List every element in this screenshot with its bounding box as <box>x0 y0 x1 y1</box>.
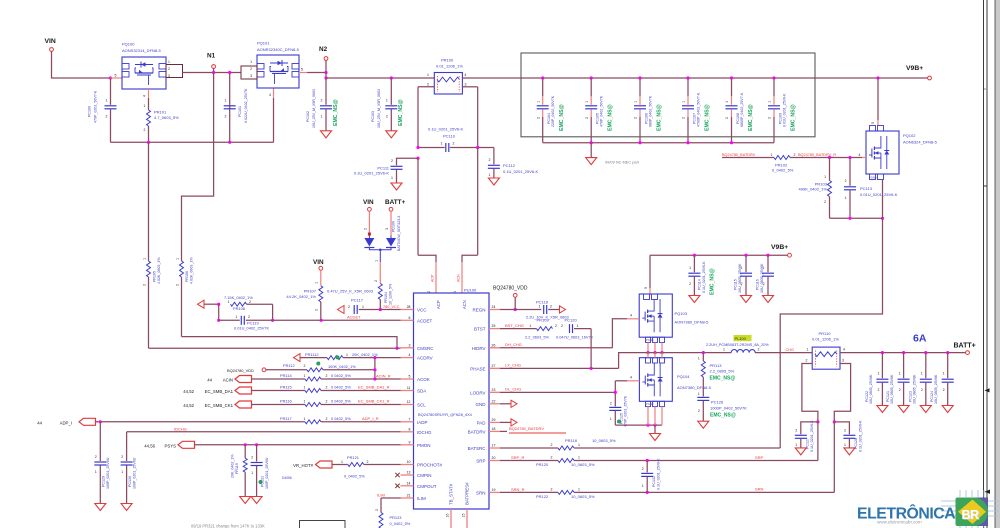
ground below PC123 <box>920 406 931 413</box>
svg-text:0.1U_0201_25V6-K: 0.1U_0201_25V6-K <box>657 458 661 490</box>
svg-text:2: 2 <box>634 117 638 119</box>
svg-text:CMPOUT: CMPOUT <box>417 484 437 489</box>
svg-text:0_0402_5%: 0_0402_5% <box>344 474 365 479</box>
svg-text:PC101: PC101 <box>238 106 242 117</box>
wire DH_CHG to PQ103 gate <box>500 347 612 349</box>
svg-text:1: 1 <box>725 101 729 103</box>
wire junction PR112/ACDRV/ACIN <box>374 358 376 379</box>
wire phase bus right of coil <box>755 352 812 354</box>
svg-text:28: 28 <box>407 305 411 309</box>
svg-text:2: 2 <box>768 117 772 119</box>
resistor PR121 <box>332 464 348 466</box>
svg-text:BATDRV: BATDRV <box>468 429 486 434</box>
svg-text:CHG: CHG <box>786 348 794 352</box>
svg-text:2: 2 <box>121 455 123 459</box>
svg-text:PR123: PR123 <box>390 515 402 520</box>
capacitor PC112 <box>493 148 495 165</box>
svg-text:4: 4 <box>269 93 271 97</box>
svg-text:2: 2 <box>489 158 491 162</box>
svg-text:PROCHOT#: PROCHOT# <box>417 463 443 468</box>
svg-text:EMC_NS@: EMC_NS@ <box>333 99 339 126</box>
svg-text:1: 1 <box>943 372 945 376</box>
svg-text:SRP_R: SRP_R <box>511 455 524 460</box>
svg-text:1: 1 <box>304 400 306 404</box>
svg-text:BQ24780SRUYR_QFN28_4X4: BQ24780SRUYR_QFN28_4X4 <box>418 412 473 417</box>
snubber capacitor PC126 <box>697 396 709 398</box>
svg-text:HIDRV: HIDRV <box>472 346 486 351</box>
PU100 pin 11 SDA <box>401 390 414 392</box>
svg-text:LX_CHG: LX_CHG <box>505 363 521 368</box>
wire PR105 to CMSRC <box>149 347 398 349</box>
svg-text:CMPIN: CMPIN <box>417 473 432 478</box>
wire ACP vertical <box>417 158 419 255</box>
svg-text:1: 1 <box>642 484 644 488</box>
svg-text:ACP: ACP <box>430 274 434 282</box>
svg-text:17: 17 <box>492 444 496 448</box>
svg-text:0 0402_5%: 0 0402_5% <box>331 399 351 404</box>
svg-text:2: 2 <box>561 324 563 328</box>
PU100 bottom pins 16 15 <box>450 509 452 528</box>
svg-text:PC100: PC100 <box>88 106 92 117</box>
svg-text:2: 2 <box>168 67 170 71</box>
svg-text:2: 2 <box>391 159 393 163</box>
svg-text:1: 1 <box>386 99 388 103</box>
svg-text:www.eletronicabr.com: www.eletronicabr.com <box>877 520 922 525</box>
power arrow after PC118 <box>560 306 566 313</box>
wire main VIN bus to PR100 <box>326 77 434 79</box>
svg-text:2: 2 <box>363 228 367 230</box>
wire SRP row <box>574 460 818 462</box>
svg-text:ACIN: ACIN <box>223 377 233 382</box>
svg-text:BAT54CW_SOT323-3: BAT54CW_SOT323-3 <box>397 216 401 251</box>
svg-text:7: 7 <box>409 417 411 421</box>
svg-text:1: 1 <box>698 357 700 361</box>
resistor PR116 <box>252 404 306 406</box>
svg-text:PU100: PU100 <box>464 288 477 293</box>
svg-text:0.1U_0201_25V6-K: 0.1U_0201_25V6-K <box>702 261 706 293</box>
svg-text:0.01U_0201_25V6-K: 0.01U_0201_25V6-K <box>783 93 787 127</box>
svg-text:ACN: ACN <box>456 274 460 282</box>
wire PQ102 source to BATSRC <box>780 218 882 448</box>
svg-text:PR118: PR118 <box>565 438 578 443</box>
PU100 pin 28 VCC <box>401 309 414 311</box>
svg-text:VIN: VIN <box>363 199 374 206</box>
svg-text:11: 11 <box>407 386 411 390</box>
ground below PC131 <box>251 497 262 504</box>
svg-text:o: o <box>984 87 986 91</box>
svg-text:TB_STAT#: TB_STAT# <box>449 483 454 505</box>
wire PR106 to CMSRC <box>182 337 398 349</box>
svg-text:PC131: PC131 <box>261 476 265 487</box>
ground NC bus <box>590 143 592 158</box>
svg-text:2: 2 <box>386 115 388 119</box>
svg-text:PC110: PC110 <box>443 134 456 139</box>
svg-text:1: 1 <box>578 487 580 491</box>
svg-text:1: 1 <box>610 417 612 421</box>
svg-text:5: 5 <box>115 74 117 78</box>
svg-text:PR122: PR122 <box>536 494 549 499</box>
svg-text:2: 2 <box>550 305 552 309</box>
wire PC101 top <box>229 73 231 105</box>
svg-text:6: 6 <box>409 316 411 320</box>
PU100 pin 21 ILIM <box>401 497 414 499</box>
resistor PR1112 <box>300 357 327 359</box>
svg-text:2: 2 <box>689 282 691 286</box>
svg-text:1: 1 <box>106 99 108 103</box>
PU100 pin 24 REGN <box>489 309 500 311</box>
svg-text:1: 1 <box>250 60 252 64</box>
svg-text:25: 25 <box>492 324 496 328</box>
ground below PC114 <box>689 296 700 303</box>
svg-text:1: 1 <box>144 104 146 108</box>
resistor PR114 <box>252 378 306 380</box>
svg-text:PGND: PGND <box>646 338 654 342</box>
svg-text:2: 2 <box>248 315 250 319</box>
svg-text:BATT+: BATT+ <box>954 342 976 349</box>
svg-text:0.01U_0402_25V7K: 0.01U_0402_25V7K <box>234 326 269 331</box>
svg-text:PL100: PL100 <box>735 336 747 341</box>
wire N1 <box>183 72 242 74</box>
svg-text:2: 2 <box>642 467 644 471</box>
wire V9B+ to PQ102 drain <box>876 76 879 79</box>
ground below PC121 <box>898 406 909 413</box>
svg-text:0.01_1206_1%: 0.01_1206_1% <box>436 64 463 69</box>
svg-text:VIN: VIN <box>313 259 324 266</box>
svg-text:PR120: PR120 <box>536 462 549 467</box>
PU100 pin 13 CMPIN <box>401 474 414 476</box>
svg-text:4.02K_0603_1%: 4.02K_0603_1% <box>157 257 161 284</box>
svg-text:PR107: PR107 <box>304 289 317 294</box>
wire NC caps bottom bus <box>543 142 774 144</box>
svg-text:1: 1 <box>539 305 541 309</box>
svg-text:1: 1 <box>723 347 725 351</box>
svg-text:10_1206_5%: 10_1206_5% <box>389 283 393 305</box>
resistor PR118 BATSRC <box>500 447 558 449</box>
svg-text:2: 2 <box>795 429 797 433</box>
wire PQ100 gate net bus <box>111 141 274 143</box>
svg-text:1: 1 <box>346 353 348 357</box>
svg-text:ACN: ACN <box>462 300 467 309</box>
svg-text:1: 1 <box>768 101 772 103</box>
svg-text:BST_CHG: BST_CHG <box>505 323 524 328</box>
power arrow GND pin <box>500 403 511 405</box>
wire kelvin3 to SRN <box>833 422 835 493</box>
svg-text:1: 1 <box>899 372 901 376</box>
svg-text:4: 4 <box>630 314 632 318</box>
svg-text:29: 29 <box>492 418 496 422</box>
svg-text:0.047U_0603_16V7K: 0.047U_0603_16V7K <box>556 335 594 340</box>
svg-text:PC120: PC120 <box>565 318 578 323</box>
svg-text:1: 1 <box>236 315 238 319</box>
ground below PC111 <box>391 183 402 190</box>
svg-text:4: 4 <box>143 95 147 97</box>
svg-text:EMC_NS@: EMC_NS@ <box>608 104 614 131</box>
wire V9B+ rail <box>650 254 788 256</box>
svg-text:4700P_0402_50V7-K: 4700P_0402_50V7-K <box>697 92 701 127</box>
svg-text:1: 1 <box>845 196 847 200</box>
svg-text:ADP_I: ADP_I <box>60 420 72 425</box>
svg-text:1: 1 <box>771 153 773 157</box>
svg-text:EMC_NS@: EMC_NS@ <box>710 268 716 295</box>
svg-text:3: 3 <box>842 359 844 363</box>
ground below PC115 <box>741 296 752 303</box>
svg-text:1: 1 <box>321 115 323 119</box>
svg-text:BR: BR <box>962 508 980 522</box>
wire ACIN_R to pin5 <box>375 378 401 380</box>
svg-text:2: 2 <box>845 179 847 183</box>
svg-text:PR101: PR101 <box>154 110 167 115</box>
capacitor PC131 <box>256 445 258 462</box>
svg-text:220P_0402_50V7K: 220P_0402_50V7K <box>551 95 555 127</box>
capacitor PC107 <box>686 76 689 79</box>
svg-text:2: 2 <box>921 388 923 392</box>
svg-text:44,52: 44,52 <box>183 403 194 408</box>
ground below PC130 <box>121 504 132 511</box>
svg-text:44: 44 <box>207 377 212 382</box>
wire ADP_I row <box>96 421 306 423</box>
capacitor PC109 <box>772 76 775 79</box>
svg-text:8: 8 <box>409 427 411 431</box>
capacitor PC103 <box>390 76 393 79</box>
resistor PR108 <box>204 303 219 305</box>
capacitor PC127 <box>801 422 818 434</box>
svg-text:6800P_0402_25V7-K: 6800P_0402_25V7-K <box>740 92 744 127</box>
svg-text:LODRV: LODRV <box>470 390 485 395</box>
svg-text:1: 1 <box>878 372 880 376</box>
svg-text:ADP_I_R: ADP_I_R <box>362 416 379 421</box>
svg-text:10U_25V_M_X5R_0603: 10U_25V_M_X5R_0603 <box>312 89 316 128</box>
svg-text:2: 2 <box>143 284 147 286</box>
svg-text:PC117: PC117 <box>351 298 364 303</box>
wire PR110 to BATT+ <box>840 352 966 354</box>
PU100 pin 29 PAD <box>489 421 500 423</box>
wire BTST cap to phase <box>590 329 592 369</box>
svg-text:27: 27 <box>492 364 496 368</box>
svg-text:10: 10 <box>407 460 411 464</box>
svg-text:470P_0201_25V7K: 470P_0201_25V7K <box>624 395 628 427</box>
svg-text:EC_SMB_DA1: EC_SMB_DA1 <box>205 389 234 394</box>
svg-text:PD100: PD100 <box>392 221 396 232</box>
svg-text:2.2UH_PCMB063T-2R2MS_8A_20%: 2.2UH_PCMB063T-2R2MS_8A_20% <box>706 343 769 347</box>
svg-text:4.02K_0603_1%: 4.02K_0603_1% <box>190 257 194 284</box>
svg-text:PGND: PGND <box>869 176 877 180</box>
svg-text:PMON: PMON <box>417 443 431 448</box>
svg-text:44,52: 44,52 <box>183 389 194 394</box>
svg-text:499K_0402_1%: 499K_0402_1% <box>799 187 828 192</box>
PQ100 output pin rectangle <box>166 65 183 78</box>
PU100 pin 6 ACDET <box>401 319 414 321</box>
svg-text:10U_0805_25V6K: 10U_0805_25V6K <box>738 263 742 293</box>
svg-text:22: 22 <box>492 399 496 403</box>
svg-text:PR121: PR121 <box>347 455 359 460</box>
ground below PC124 <box>942 406 953 413</box>
svg-text:VR_HOT#: VR_HOT# <box>293 463 313 468</box>
capacitor PC125 <box>609 406 621 408</box>
resistor PR101 <box>148 89 150 98</box>
ground below PC116 <box>763 296 774 303</box>
wire ACDET row <box>273 319 401 321</box>
capacitor PC129 <box>99 422 101 461</box>
svg-text:4: 4 <box>630 376 632 380</box>
svg-text:1: 1 <box>304 417 306 421</box>
capacitor PC124 <box>947 353 949 379</box>
svg-text:4: 4 <box>409 353 411 357</box>
svg-text:1: 1 <box>489 173 491 177</box>
snubber resistor PR113 <box>702 351 705 354</box>
svg-text:PQ104: PQ104 <box>677 374 690 379</box>
svg-text:0.1U_0201_25V6-K: 0.1U_0201_25V6-K <box>354 171 389 176</box>
svg-text:AON7380_DFN8-5: AON7380_DFN8-5 <box>677 385 712 390</box>
svg-text:2: 2 <box>144 128 146 132</box>
capacitor PC122 <box>881 353 883 379</box>
svg-text:2: 2 <box>374 280 378 282</box>
ground below PC122 <box>877 406 888 413</box>
capacitor PC102 <box>325 78 327 105</box>
svg-text:21: 21 <box>407 494 411 498</box>
svg-text:PC129: PC129 <box>102 476 106 487</box>
svg-text:EC_SMB_DA1_R: EC_SMB_DA1_R <box>358 385 390 390</box>
svg-text:PR112: PR112 <box>283 363 295 368</box>
capacitor PC106 <box>638 76 641 79</box>
capacitor PC116 <box>767 255 769 272</box>
svg-text:ACDET: ACDET <box>417 318 433 323</box>
PU100 pin 14 CMPOUT <box>401 485 414 487</box>
svg-text:2: 2 <box>326 374 328 378</box>
svg-text:0 0402_5%: 0 0402_5% <box>331 416 351 421</box>
svg-text:09/19 PR321 change from 147K t: 09/19 PR321 change from 147K to 133K <box>191 524 265 528</box>
svg-text:BQ24780_BATDRV: BQ24780_BATDRV <box>509 426 544 431</box>
wire PR110 kelvin pin2 <box>802 364 818 422</box>
capacitor PC123 <box>925 353 927 379</box>
capacitor PC113 <box>849 158 851 186</box>
svg-text:18: 18 <box>492 427 496 431</box>
wire PQ104 source bus <box>615 424 662 426</box>
resistor PR123 <box>380 498 382 513</box>
wire PQ102 source bus <box>830 217 883 219</box>
svg-text:PR115: PR115 <box>280 385 292 390</box>
wire PR100 kelvin pin3 to ACN <box>462 86 477 88</box>
svg-text:1: 1 <box>143 258 147 260</box>
svg-text:1: 1 <box>689 266 691 270</box>
svg-text:SRP: SRP <box>476 459 485 464</box>
off-page arrow ACDRV row <box>294 354 301 362</box>
svg-text:0.1U_0201_25V6-K: 0.1U_0201_25V6-K <box>859 420 863 452</box>
svg-text:2: 2 <box>375 509 379 511</box>
svg-text:PR113: PR113 <box>710 363 723 368</box>
svg-text:1: 1 <box>95 470 97 474</box>
capacitor PC105 <box>590 76 593 79</box>
resistor PR115 <box>252 390 306 392</box>
svg-text:PR108: PR108 <box>233 306 245 311</box>
svg-text:5: 5 <box>871 122 875 124</box>
svg-text:100P_0201_25V6U: 100P_0201_25V6U <box>132 457 136 489</box>
wire ACDRV row to pin4 <box>375 357 401 359</box>
svg-text:10U_0805_25V6K: 10U_0805_25V6K <box>934 374 938 404</box>
PU100 pin 25 BTST <box>489 328 500 330</box>
svg-text:2: 2 <box>348 305 350 309</box>
svg-text:ACP: ACP <box>436 300 441 309</box>
svg-text:BTST: BTST <box>474 327 486 332</box>
svg-text:3: 3 <box>250 74 252 78</box>
svg-text:BQ24780_VDD: BQ24780_VDD <box>227 368 254 373</box>
svg-text:SDA: SDA <box>417 389 426 394</box>
svg-text:1: 1 <box>530 324 532 328</box>
svg-text:6A: 6A <box>913 333 927 345</box>
svg-text:D4056: D4056 <box>282 476 292 480</box>
wire kelvin2 to SRP <box>817 422 819 461</box>
svg-text:1: 1 <box>578 443 580 447</box>
svg-text:100P_0201_25V6U: 100P_0201_25V6U <box>106 457 110 489</box>
svg-text:EC_SMB_CK1: EC_SMB_CK1 <box>205 403 234 408</box>
PU100 pin 12 SCL <box>401 404 414 406</box>
svg-text:0.1U_0201_25V6-K: 0.1U_0201_25V6-K <box>428 127 463 132</box>
svg-text:5: 5 <box>301 68 303 72</box>
capacitor PC108 <box>730 76 733 79</box>
svg-text:1: 1 <box>168 60 170 64</box>
ground below PC126 <box>698 421 709 428</box>
NC MEC part grey box <box>521 53 815 137</box>
svg-text:PC132: PC132 <box>652 476 656 487</box>
svg-text:EMC_NS@: EMC_NS@ <box>705 104 711 131</box>
ground below PC129 <box>95 504 106 511</box>
svg-text:4.7_0603_5%: 4.7_0603_5% <box>154 115 179 120</box>
svg-text:2: 2 <box>758 347 760 351</box>
svg-text:0.47U_25V_K_X5R_0603: 0.47U_25V_K_X5R_0603 <box>327 289 374 294</box>
wire PR100 kelvin pin2 to ACP <box>418 86 434 88</box>
svg-text:2: 2 <box>321 99 323 103</box>
svg-text:09/09 NC MEC part: 09/09 NC MEC part <box>605 160 640 165</box>
svg-text:16: 16 <box>446 514 450 518</box>
svg-text:2: 2 <box>453 142 455 146</box>
svg-text:PC114: PC114 <box>698 279 702 290</box>
svg-text:PR110: PR110 <box>819 331 832 336</box>
svg-text:2: 2 <box>682 117 686 119</box>
svg-text:ACOK: ACOK <box>417 377 430 382</box>
svg-text:SRP: SRP <box>755 455 764 460</box>
svg-text:2: 2 <box>225 115 227 119</box>
sheet border lines <box>983 0 985 528</box>
capacitor PC111 <box>416 157 419 160</box>
svg-text:10U_0805_25V6K: 10U_0805_25V6K <box>912 374 916 404</box>
svg-text:44: 44 <box>37 420 42 425</box>
svg-text:ACIN_R: ACIN_R <box>376 373 391 378</box>
svg-text:EMC_NS@: EMC_NS@ <box>710 413 736 419</box>
svg-text:IDCHG: IDCHG <box>174 426 187 431</box>
wire LX_CHG phase row <box>489 367 500 369</box>
svg-text:PHASE: PHASE <box>470 366 485 371</box>
svg-text:SCL: SCL <box>417 403 426 408</box>
capacitor PC121 <box>903 353 905 379</box>
svg-text:2: 2 <box>326 417 328 421</box>
capacitor PC114 <box>693 255 695 272</box>
svg-text:1: 1 <box>682 101 686 103</box>
svg-text:0.1U_0201_25V6-K: 0.1U_0201_25V6-K <box>810 420 814 452</box>
svg-text:0 0402_5%: 0 0402_5% <box>331 373 351 378</box>
wire ACN vertical <box>477 148 479 256</box>
PU100 pin 23 LODRV <box>489 391 500 393</box>
wire N2 junction <box>307 72 326 74</box>
svg-text:2: 2 <box>367 460 369 464</box>
svg-text:V9B+: V9B+ <box>906 65 923 72</box>
svg-text:2: 2 <box>304 364 306 368</box>
PU100 pin 26 HIDRV <box>489 347 500 349</box>
svg-text:2: 2 <box>427 83 429 87</box>
resistor PR119 <box>244 445 246 458</box>
svg-text:1: 1 <box>795 443 797 447</box>
svg-text:2: 2 <box>95 455 97 459</box>
svg-text:1: 1 <box>577 324 579 328</box>
svg-text:0_0402_5%: 0_0402_5% <box>772 168 794 173</box>
